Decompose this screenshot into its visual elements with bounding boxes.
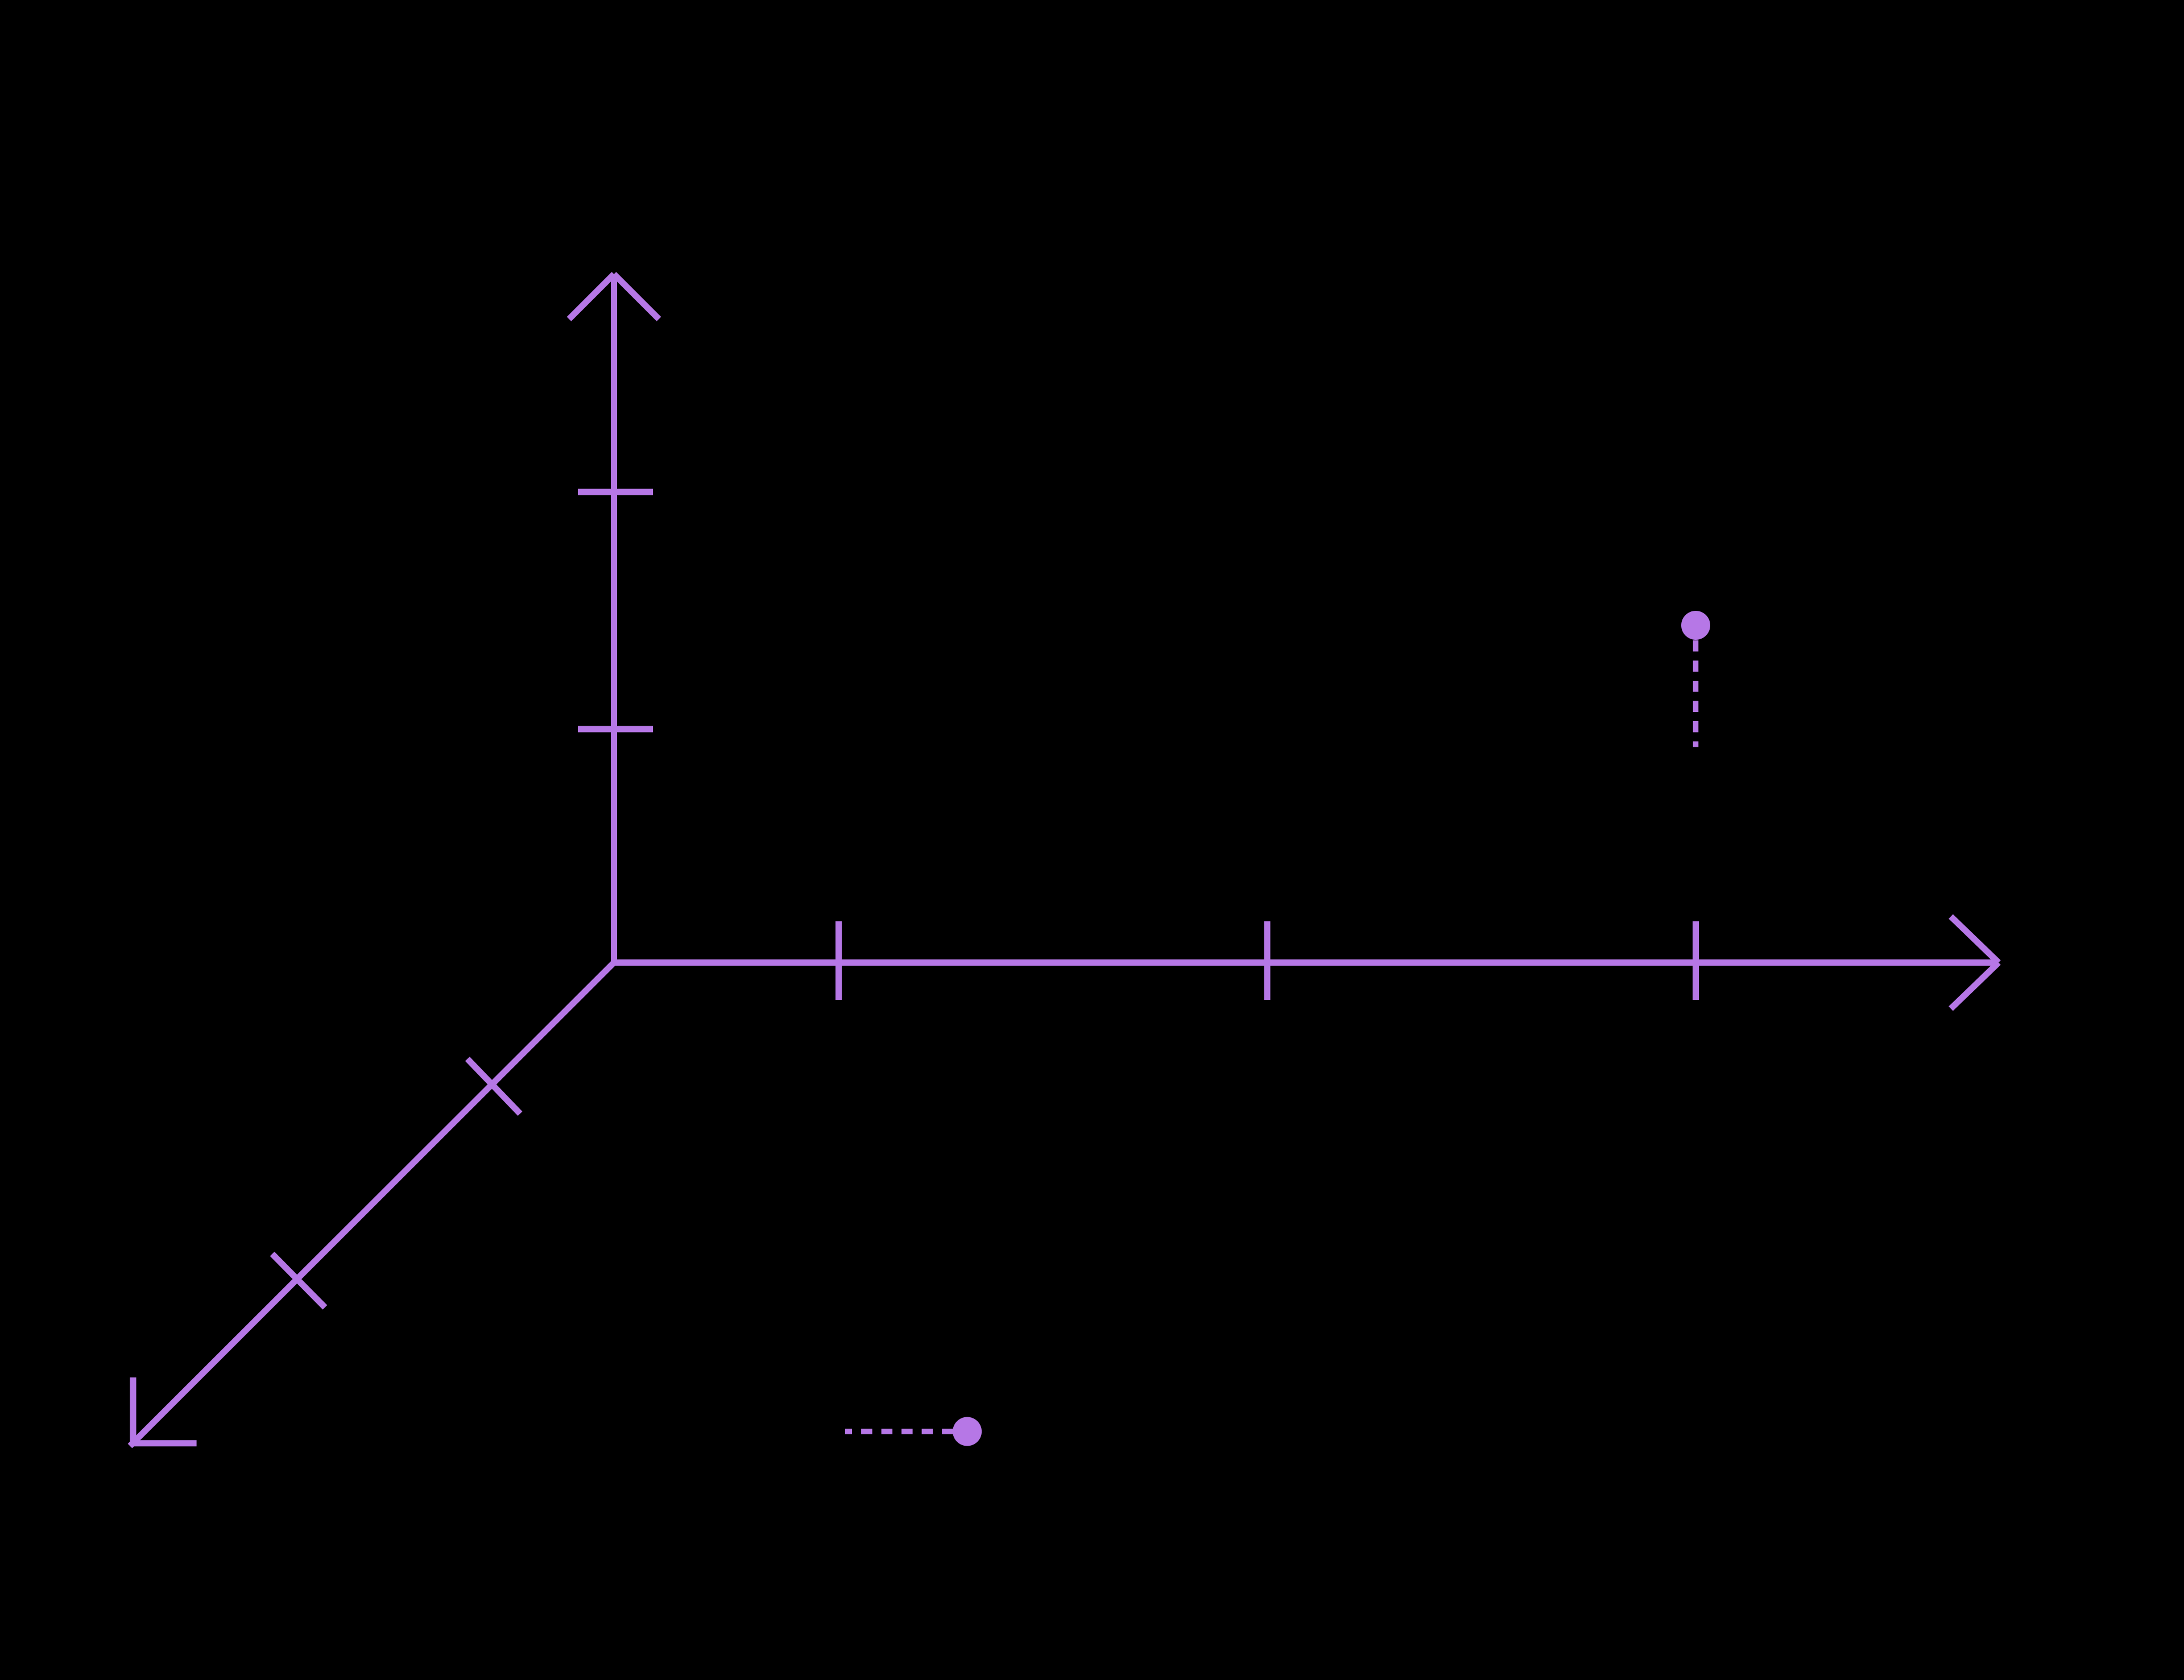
point P2 dashed lead line <box>845 1429 953 1434</box>
y-axis (diagonal axis line) <box>130 963 614 1446</box>
y-axis tick 1 <box>468 1059 520 1114</box>
y-axis arrowhead <box>133 1377 197 1443</box>
x-axis tick 2 <box>1264 921 1271 1000</box>
z-axis (vertical axis line) <box>611 275 617 963</box>
point P1 dashed drop line <box>1693 640 1699 747</box>
z-axis tick 1 <box>578 726 653 733</box>
point P1 dot <box>1681 611 1710 640</box>
point P2 dot <box>953 1417 982 1446</box>
x-axis tick 1 <box>835 921 842 1000</box>
y-axis tick 2 <box>272 1254 325 1307</box>
z-axis arrowhead <box>569 274 659 319</box>
z-axis tick 2 <box>578 489 653 495</box>
x-axis (horizontal axis line) <box>614 959 1998 966</box>
x-axis arrowhead <box>1951 917 1999 1009</box>
x-axis tick 3 <box>1693 921 1699 1000</box>
